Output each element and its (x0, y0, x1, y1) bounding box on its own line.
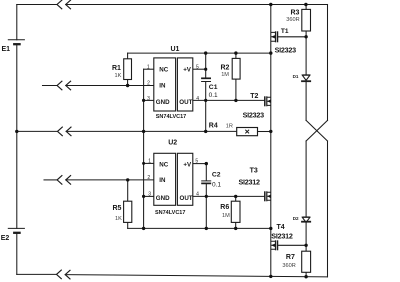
node OUT1 / C1 (204, 99, 207, 102)
node OUT2 / R6 (234, 195, 237, 198)
svg-text:360R: 360R (286, 17, 299, 23)
node input2 / R5 (126, 178, 129, 181)
svg-text:R2: R2 (221, 65, 230, 72)
battery E2 (8, 228, 25, 232)
op-amp buffer U1 SN74LVC17 (147, 46, 199, 120)
svg-text:GND: GND (156, 99, 170, 106)
svg-text:360R: 360R (282, 263, 295, 269)
node mid rail / NC tie column (142, 130, 145, 133)
resistor R2 1M (221, 58, 241, 79)
wire U2 pin5 +V stub (193, 163, 207, 165)
svg-text:4: 4 (196, 96, 199, 102)
node U2 pin5 / C2 (205, 162, 208, 165)
svg-text:E2: E2 (1, 235, 10, 242)
svg-text:3: 3 (148, 191, 151, 197)
svg-text:IN: IN (159, 177, 166, 184)
svg-text:T4: T4 (277, 224, 285, 231)
node top wire / T1 column (269, 3, 272, 6)
node left rail / mid rail (15, 130, 18, 133)
svg-text:0.1: 0.1 (209, 92, 218, 99)
wire R3 bottom to D1 (305, 31, 307, 75)
svg-text:2: 2 (147, 81, 150, 87)
svg-text:R1: R1 (112, 65, 121, 72)
svg-text:E1: E1 (2, 46, 11, 53)
wire T1 gate to R3/D1 node (278, 36, 307, 38)
svg-text:NC: NC (159, 67, 168, 74)
wire input 2 (44, 179, 57, 181)
svg-text:5: 5 (195, 159, 198, 165)
svg-text:+V: +V (183, 67, 192, 74)
node T1 gate / R3 / D1 (304, 35, 307, 38)
svg-text:0.1: 0.1 (212, 181, 221, 188)
wire top rail from E1+ to right side (17, 4, 57, 6)
wire U2 OUT row to T3 gate (193, 195, 265, 197)
chevron break marks on input 1 (57, 81, 71, 90)
wire crossover X of output pair (306, 120, 327, 141)
transistor T2 SI2323 (P-MOSFET, gate to the left) (243, 93, 271, 119)
wire R3 top stub (305, 5, 307, 10)
transistor T1 SI2323 (P-MOSFET, gate to the right) (271, 28, 296, 54)
svg-text:1K: 1K (115, 216, 122, 222)
svg-text:1M: 1M (221, 72, 229, 78)
wire input 1 (43, 85, 58, 87)
svg-text:SI2312: SI2312 (271, 231, 293, 240)
node top rail / C1 (204, 51, 207, 54)
svg-text:5: 5 (196, 64, 199, 70)
node OUT2 / C2 (205, 195, 208, 198)
wire T4 gate to D2/R7 node (278, 244, 307, 246)
svg-text:2: 2 (147, 175, 150, 181)
wire R2 stubs (235, 53, 237, 100)
svg-text:IN: IN (159, 82, 166, 89)
svg-text:T2: T2 (250, 93, 258, 100)
node bottom wire / R7 (304, 275, 307, 278)
node U2 pin1 / tie column (142, 162, 145, 165)
wire mid rail (center tap) (17, 130, 58, 132)
node lower rail / R6 (234, 227, 237, 230)
svg-text:R7: R7 (286, 254, 295, 261)
wire right vertical lower (327, 141, 329, 277)
svg-text:D1: D1 (293, 74, 299, 79)
diode D2 (293, 216, 311, 222)
svg-text:D2: D2 (293, 216, 299, 221)
chevron break marks on input 2 (57, 176, 71, 185)
svg-text:OUT: OUT (180, 195, 193, 202)
svg-text:3: 3 (147, 96, 150, 102)
svg-text:+V: +V (183, 161, 192, 168)
wire U1 pin3 GND stub (144, 99, 154, 101)
node mid rail / C1 column (204, 130, 207, 133)
svg-text:1: 1 (148, 159, 151, 165)
resistor R7 360R (282, 251, 310, 272)
svg-text:R3: R3 (291, 10, 300, 17)
wire U2 pin3 GND stub (144, 195, 154, 197)
resistor R3 360R (286, 9, 310, 31)
wire C2 vertical branch (205, 164, 207, 181)
wire U2 pin1 NC stub (144, 162, 154, 164)
svg-text:R6: R6 (220, 204, 229, 211)
wire left rail (E1/E2 column) (16, 5, 18, 40)
wire U1 pin1 NC tie-down vertical (144, 68, 154, 70)
wire main center vertical (T1-T4 column) (270, 5, 272, 277)
wire R5 stubs (127, 180, 129, 229)
resistor R6 1M (220, 201, 240, 222)
node T4 gate / D2 / R7 (304, 244, 307, 247)
svg-text:NC: NC (159, 161, 168, 168)
node bottom wire / T column (269, 275, 272, 278)
node OUT1 / U1 pin3 tie (142, 99, 145, 102)
chevron break marks on mid rail (58, 127, 72, 136)
svg-text:R4: R4 (209, 123, 218, 130)
op-amp buffer U2 SN74LVC17 (147, 140, 199, 217)
svg-text:T1: T1 (281, 28, 289, 35)
wire right vertical upper (327, 5, 329, 121)
node top rail / R2 (234, 51, 237, 54)
transistor T4 SI2312 (N-MOSFET, gate to the right) (271, 224, 293, 251)
svg-text:SI2323: SI2323 (243, 111, 265, 120)
node lower rail / C2 column (205, 227, 208, 230)
wire C1 vertical branch (205, 53, 207, 78)
capacitor C1 0.1 (201, 78, 218, 99)
wire crossover to D2 (305, 141, 307, 217)
node mid rail / T column (269, 130, 272, 133)
node lower rail / T column (269, 227, 272, 230)
chevron break marks on bottom wire (57, 270, 71, 279)
node input1 / R1 (126, 84, 129, 87)
wire top supply rail y53 (128, 52, 271, 54)
svg-text:OUT: OUT (179, 99, 192, 106)
resistor R4 1R (boxed x element) (209, 123, 258, 136)
node OUT1 / R2 (234, 99, 237, 102)
chevron break marks on top wire (57, 0, 71, 9)
svg-text:1M: 1M (222, 213, 230, 219)
capacitor C2 0.1 (201, 172, 221, 189)
wire R1 stubs (127, 53, 129, 85)
transistor T3 SI2312 (N-MOSFET, gate to the left) (239, 168, 271, 202)
svg-text:C1: C1 (209, 84, 218, 91)
node lower rail / tie column (142, 227, 145, 230)
svg-text:1R: 1R (226, 123, 233, 129)
svg-text:4: 4 (196, 191, 199, 197)
battery E1 (8, 40, 25, 44)
svg-text:1: 1 (147, 64, 150, 70)
wire R6 stubs (235, 196, 237, 228)
resistor R1 1K (112, 59, 132, 80)
resistor R5 1K (113, 201, 132, 222)
svg-text:R5: R5 (113, 205, 122, 212)
wire R7 stubs (305, 245, 307, 276)
svg-text:1K: 1K (115, 73, 122, 79)
node top rail / T1 column (269, 51, 272, 54)
svg-text:GND: GND (156, 195, 170, 202)
wire D1 to crossover (305, 82, 307, 121)
wire U1 OUT row to T2 gate (193, 99, 265, 101)
svg-text:SI2312: SI2312 (239, 178, 261, 187)
wire lower supply rail y228 (128, 227, 271, 229)
diode D1 (293, 74, 312, 81)
svg-text:U2: U2 (168, 140, 177, 147)
wire D2 to node (305, 222, 307, 245)
wire U1 pin5 +V stub (193, 68, 206, 70)
node top wire / R3 (304, 3, 307, 6)
node U1 pin5 / C1 (204, 68, 207, 71)
svg-text:U1: U1 (171, 46, 180, 53)
svg-text:SI2323: SI2323 (275, 45, 297, 54)
svg-text:C2: C2 (212, 172, 221, 179)
node OUT2 / U2 pin3 tie (142, 195, 145, 198)
svg-text:T3: T3 (250, 168, 258, 175)
wire bottom rail (17, 273, 57, 275)
svg-text:SN74LVC17: SN74LVC17 (156, 114, 186, 120)
svg-text:SN74LVC17: SN74LVC17 (155, 210, 185, 216)
